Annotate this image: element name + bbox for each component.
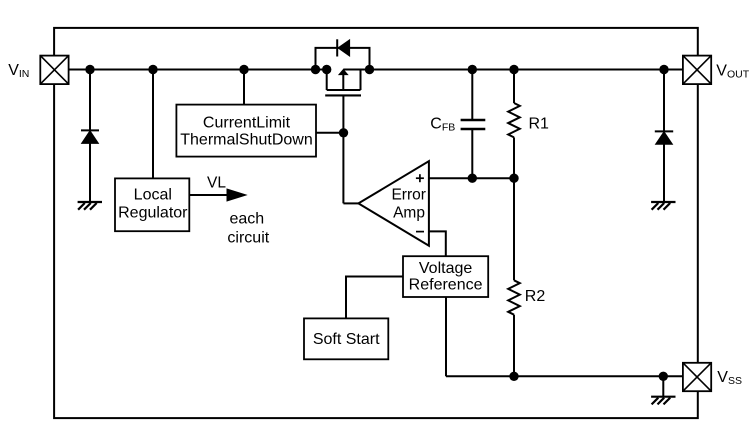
- wire current limit output: [316, 132, 343, 134]
- node ground rail VSS junction: [659, 372, 668, 381]
- node VIN rail junction 2: [148, 65, 157, 74]
- node drain junction: [365, 65, 374, 74]
- svg-text:Reference: Reference: [409, 277, 483, 294]
- block Soft Start: [304, 318, 388, 359]
- svg-text:Voltage: Voltage: [419, 260, 472, 277]
- label R2: [525, 288, 546, 305]
- label VOUT: [716, 63, 749, 81]
- pad VOUT: [683, 56, 711, 85]
- node ground rail R2 junction: [509, 372, 518, 381]
- wire CFB branch lower: [471, 129, 473, 178]
- svg-text:R2: R2: [525, 288, 546, 305]
- capacitor CFB: [461, 120, 486, 129]
- node feedback R1 junction: [509, 174, 518, 183]
- pad VIN: [40, 56, 68, 85]
- diode D1 left reverse protection: [81, 130, 99, 143]
- label VL: [207, 175, 226, 192]
- label VIN: [8, 62, 29, 80]
- wire body diode branch: [316, 48, 370, 70]
- wire ground rail: [446, 375, 683, 377]
- wire VSS ground stem: [662, 376, 664, 396]
- wire VIN rail: [69, 69, 683, 71]
- label VSS: [717, 369, 742, 387]
- label R1: [529, 116, 550, 133]
- svg-text:Local: Local: [134, 187, 172, 204]
- label CFB: [430, 116, 455, 134]
- wire R1 top: [513, 70, 515, 104]
- svg-text:Soft Start: Soft Start: [313, 331, 380, 348]
- IC boundary frame: [54, 28, 698, 418]
- wire voltage reference to ground rail: [445, 297, 447, 376]
- wire R2 bottom: [513, 315, 515, 377]
- diode D2 right reverse protection: [655, 131, 673, 144]
- svg-text:R1: R1: [529, 116, 550, 133]
- svg-text:ThermalShutDown: ThermalShutDown: [180, 131, 313, 148]
- svg-text:each: each: [229, 211, 264, 228]
- node gate junction: [339, 128, 348, 137]
- wire gate node: [342, 95, 344, 203]
- wire left diode branch: [89, 70, 91, 202]
- svg-text:CurrentLimit: CurrentLimit: [203, 114, 291, 131]
- wire R2 top: [513, 178, 515, 280]
- wire R1 bottom: [513, 137, 515, 178]
- block Local Regulator: [115, 178, 189, 231]
- node VOUT rail R1 junction: [509, 65, 518, 74]
- svg-text:Regulator: Regulator: [118, 204, 188, 221]
- node VOUT rail diode junction: [659, 65, 668, 74]
- block CurrentLimit ThermalShutDown: [176, 105, 316, 157]
- wire soft start to voltage reference: [346, 277, 403, 319]
- ground at VSS rail: [651, 397, 675, 405]
- transistor M1 PMOS pass element: [325, 70, 361, 96]
- node VIN rail junction 1: [85, 65, 94, 74]
- svg-text:Amp: Amp: [393, 205, 425, 222]
- node VOUT rail CFB junction: [468, 65, 477, 74]
- wire current limit supply: [243, 70, 245, 105]
- svg-text:VL: VL: [207, 175, 226, 192]
- node source junction: [322, 65, 331, 74]
- wire CFB branch upper: [471, 70, 473, 120]
- resistor R1: [508, 103, 520, 137]
- wire right diode branch: [663, 70, 665, 203]
- block Voltage Reference: [403, 256, 488, 297]
- svg-text:Error: Error: [391, 186, 425, 203]
- wire feedback node: [429, 177, 514, 179]
- resistor R2: [508, 280, 520, 314]
- body diode of pass transistor: [337, 39, 349, 56]
- op-amp U1 Error Amp: [358, 161, 429, 246]
- ground under D2: [651, 202, 675, 210]
- node feedback CFB junction: [468, 174, 477, 183]
- node VIN rail junction 3: [239, 65, 248, 74]
- svg-text:circuit: circuit: [227, 230, 269, 247]
- node source junction left: [311, 65, 320, 74]
- wire error amp output: [343, 202, 358, 204]
- VL output arrow: [189, 189, 246, 201]
- ground under D1: [78, 202, 102, 210]
- wire local regulator supply: [152, 70, 154, 179]
- wire error amp minus input: [429, 231, 446, 256]
- pad VSS: [683, 363, 711, 391]
- label each circuit: [227, 211, 269, 247]
